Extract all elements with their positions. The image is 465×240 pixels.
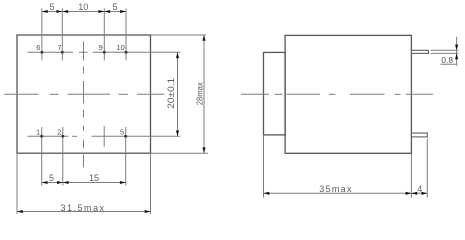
svg-text:35max: 35max xyxy=(319,184,353,194)
svg-text:5: 5 xyxy=(112,2,117,12)
svg-text:5: 5 xyxy=(120,128,124,137)
extension line pin bottom face (0.8) xyxy=(431,52,459,54)
pin 7 marker xyxy=(61,51,64,54)
svg-text:31.5max: 31.5max xyxy=(60,203,105,213)
svg-text:0.8: 0.8 xyxy=(441,55,453,65)
extension line bottom edge (28max) xyxy=(151,152,209,154)
extension line pin end (4) xyxy=(426,139,428,198)
arrowheads of 35max and 4 dimensions xyxy=(264,192,428,195)
pin 5 marker xyxy=(124,135,127,138)
svg-text:10: 10 xyxy=(116,43,124,52)
top terminal pin (side view) xyxy=(411,50,428,53)
pin 6 marker xyxy=(40,51,43,54)
svg-text:20±0.1: 20±0.1 xyxy=(166,78,176,109)
bottom pin row centerline (through pins 1-5) xyxy=(28,135,181,137)
extension line pin 5 xyxy=(125,127,127,186)
bobbin flange outline (side view left) xyxy=(264,52,286,134)
arrowheads of bottom dimension line xyxy=(42,181,126,184)
20±0.1 dimension line (pin row spacing) xyxy=(177,52,179,136)
arrowheads of top dimension line xyxy=(42,10,126,13)
svg-text:10: 10 xyxy=(78,2,88,12)
horizontal centerline (left view) xyxy=(4,93,165,95)
svg-text:4: 4 xyxy=(417,184,422,194)
pin 1 marker xyxy=(40,135,43,138)
top dimension line (5 / 10 / 5 pin pitch) xyxy=(42,11,126,13)
body outline (top view) xyxy=(17,35,151,153)
35max and 4 dimension line xyxy=(264,192,428,194)
extension line pin top face (0.8) xyxy=(431,49,459,51)
extension line pin 2 xyxy=(62,127,64,186)
arrowheads of 0.8 dimension xyxy=(455,45,458,60)
svg-text:5: 5 xyxy=(49,173,54,183)
svg-text:6: 6 xyxy=(36,43,40,52)
horizontal centerline (right view) xyxy=(241,93,433,95)
svg-text:2: 2 xyxy=(57,128,61,137)
svg-text:15: 15 xyxy=(89,173,99,183)
svg-text:5: 5 xyxy=(49,2,54,12)
0.8 leader underline xyxy=(440,63,456,65)
svg-text:28max: 28max xyxy=(196,82,205,105)
extension line pin 7 xyxy=(61,9,63,61)
pin 4 position cross tick xyxy=(103,126,105,147)
svg-text:1: 1 xyxy=(36,128,40,137)
arrowheads of 31.5max dimension xyxy=(17,210,151,213)
svg-text:9: 9 xyxy=(99,43,103,52)
0.8 dimension line (pin thickness) xyxy=(456,37,458,66)
pin 9 marker xyxy=(103,51,106,54)
arrowheads of 20±0.1 dimension xyxy=(176,52,179,136)
extension line pin 1 xyxy=(41,127,43,186)
extension line pin 6 xyxy=(41,9,43,61)
extension line body right (35max / 4) xyxy=(410,153,412,197)
pin 10 marker xyxy=(125,51,128,54)
extension line top edge (28max) xyxy=(151,34,207,36)
pin 2 marker xyxy=(61,135,64,138)
svg-text:7: 7 xyxy=(57,43,61,52)
31.5max dimension line xyxy=(17,211,151,213)
vertical centerline (left view) xyxy=(83,42,85,168)
extension line pin 10 xyxy=(125,9,127,61)
extension line pin 9 xyxy=(103,9,105,61)
28max dimension line xyxy=(203,35,205,153)
extension line right edge (31.5max) xyxy=(150,153,152,214)
bottom dimension line (5 / 15 pin pitch) xyxy=(42,182,126,184)
extension line left edge (31.5max) xyxy=(16,153,18,214)
body outline (side view) xyxy=(285,35,411,153)
top pin row centerline (through pins 6-10) xyxy=(28,51,181,53)
bottom terminal pin (side view) xyxy=(411,133,427,137)
arrowheads of 28max dimension xyxy=(202,35,205,153)
extension line flange left (35max) xyxy=(263,135,265,198)
